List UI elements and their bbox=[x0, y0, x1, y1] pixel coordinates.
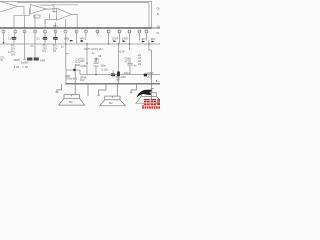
svg-text:47.1: 47.1 bbox=[94, 61, 99, 64]
svg-text:100R: 100R bbox=[112, 38, 118, 41]
svg-text:B+: B+ bbox=[156, 80, 160, 83]
svg-text:16R5: 16R5 bbox=[13, 58, 20, 62]
svg-text:16V: 16V bbox=[80, 79, 85, 82]
svg-text:100R: 100R bbox=[122, 38, 128, 41]
svg-text:8Ω: 8Ω bbox=[69, 100, 72, 104]
svg-text:4R7: 4R7 bbox=[151, 38, 156, 41]
svg-text:100u: 100u bbox=[100, 64, 106, 67]
svg-text:BTL: BTL bbox=[54, 25, 59, 28]
svg-text:16V: 16V bbox=[115, 79, 120, 82]
svg-text:4700u/16V: 4700u/16V bbox=[65, 78, 77, 81]
svg-text:4R7: 4R7 bbox=[141, 38, 146, 41]
svg-text:100R: 100R bbox=[80, 65, 86, 68]
svg-text:GN: GN bbox=[157, 25, 161, 28]
svg-text:0.1: 0.1 bbox=[30, 45, 34, 48]
svg-text:1u/50V: 1u/50V bbox=[21, 61, 29, 64]
svg-text:AP03: AP03 bbox=[80, 38, 87, 41]
svg-text:NFB: NFB bbox=[40, 59, 45, 62]
svg-text:16V: 16V bbox=[80, 60, 85, 63]
svg-text:1TL: 1TL bbox=[0, 57, 5, 60]
svg-text:8 18: 8 18 bbox=[14, 65, 20, 69]
svg-text:47.1: 47.1 bbox=[125, 60, 130, 63]
svg-text:100u: 100u bbox=[124, 72, 130, 75]
svg-text:OUT1 OUT2 OU: OUT1 OUT2 OU bbox=[84, 48, 103, 51]
svg-text:0.12u: 0.12u bbox=[102, 68, 109, 71]
svg-text:25V: 25V bbox=[11, 53, 16, 56]
svg-text:L 18: L 18 bbox=[23, 65, 29, 69]
svg-text:+12V: +12V bbox=[119, 50, 125, 53]
svg-text:OU: OU bbox=[157, 8, 161, 11]
svg-text:100u: 100u bbox=[64, 38, 70, 41]
svg-text:8Ω: 8Ω bbox=[109, 101, 112, 105]
svg-text:IN: IN bbox=[157, 32, 160, 35]
